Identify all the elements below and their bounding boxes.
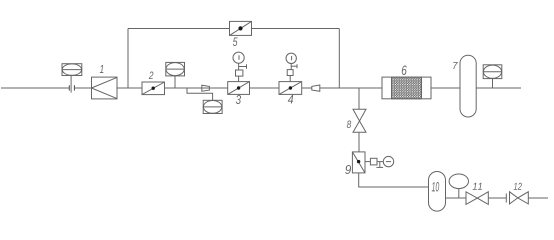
component 2: regulator box bbox=[142, 82, 165, 95]
valve 12 end bar bbox=[505, 194, 507, 203]
wire: main line, ticks to component 1 bbox=[74, 87, 91, 89]
wire: drop from main line to valve 8 bbox=[358, 88, 360, 109]
component 9: vertical regulator box bbox=[352, 152, 365, 173]
wire: bypass riser right bbox=[338, 29, 340, 89]
wire: capsule stem to main line bbox=[174, 76, 176, 88]
reducer cup on main line (large end right) bbox=[312, 85, 320, 91]
label 7 bbox=[453, 62, 458, 69]
component 3: regulator box bbox=[228, 82, 250, 95]
label 2 bbox=[149, 72, 154, 80]
wire: filter 6 to vessel 7 bbox=[431, 87, 460, 89]
reducer cup on main line (large end left) bbox=[202, 85, 210, 91]
orifice break: right tick bbox=[73, 85, 75, 90]
wire: bypass top run, left of box 5 bbox=[128, 28, 230, 30]
wire: outlet line right bbox=[528, 197, 548, 199]
wire: bypass riser left (node at main line x=128) bbox=[127, 29, 129, 89]
instrument capsule above inlet bbox=[62, 64, 82, 76]
label 5 bbox=[233, 38, 238, 47]
wire: capsule stem through orifice bbox=[70, 76, 72, 93]
wire: bypass top run, right of box 5 bbox=[252, 28, 340, 30]
wire: capsule stem to main line bbox=[492, 79, 494, 88]
component 6: filter with hatched element bbox=[382, 77, 431, 99]
label 1 bbox=[100, 65, 104, 73]
wire: component 9 down and right to vessel 10 bbox=[359, 173, 429, 187]
wire: main process line, inlet segment bbox=[1, 87, 69, 89]
valve 8: vertical globe valve bbox=[353, 109, 366, 132]
gauge assembly right of component 9 bbox=[365, 156, 394, 167]
gauge assembly above component 4 bbox=[286, 53, 297, 82]
pilot ellipse above outlet line bbox=[449, 174, 468, 189]
label 11 bbox=[473, 183, 482, 190]
instrument capsule above line after component 2 bbox=[166, 62, 185, 76]
label 12 bbox=[514, 183, 522, 190]
valve 11 bbox=[466, 192, 488, 205]
instrument capsule at outlet bbox=[483, 65, 502, 79]
label 3 bbox=[236, 95, 241, 104]
wire: component 4 to reducer bbox=[302, 87, 312, 89]
component 1: strainer bbox=[92, 77, 118, 99]
wire: sample branch down from main line bbox=[187, 88, 213, 100]
wire: vessel 7 to outlet bbox=[476, 87, 521, 89]
wire: vessel 10 to valve 11 bbox=[446, 197, 467, 199]
vessel 10: small cylinder bbox=[429, 172, 446, 212]
label 10 bbox=[432, 182, 439, 192]
label 8 bbox=[347, 121, 351, 129]
wire: component 2 to component 3 bbox=[165, 87, 228, 89]
label 9 bbox=[345, 165, 351, 174]
orifice break: left tick bbox=[68, 85, 70, 90]
wire: component 1 to component 2 bbox=[117, 87, 142, 89]
label 4 bbox=[288, 95, 293, 104]
valve 12 bbox=[510, 192, 529, 204]
label 6 bbox=[402, 66, 407, 76]
wire: reducer to filter 6 bbox=[320, 87, 382, 89]
vessel 7: vertical cylinder bbox=[460, 55, 476, 117]
component 4: regulator box bbox=[279, 82, 302, 95]
wire: pilot stem bbox=[458, 189, 460, 198]
gauge assembly above component 3 bbox=[233, 52, 247, 81]
wire: valve 8 to component 9 bbox=[358, 132, 360, 152]
instrument capsule on sample branch bbox=[203, 100, 222, 113]
wire: valve 11 to valve 12 bbox=[488, 197, 506, 199]
wire: component 3 to component 4 bbox=[250, 87, 280, 89]
component 5: bypass regulator box bbox=[230, 21, 252, 35]
